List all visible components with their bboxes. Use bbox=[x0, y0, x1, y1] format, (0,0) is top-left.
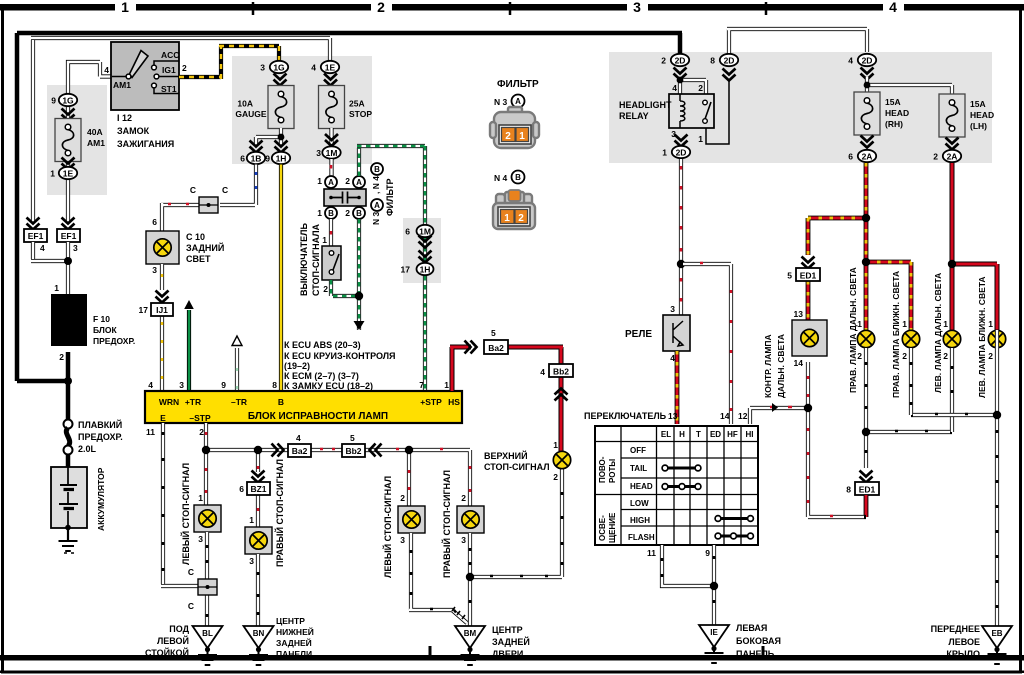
svg-text:2: 2 bbox=[943, 351, 948, 361]
svg-text:ЗАМОК: ЗАМОК bbox=[117, 126, 150, 136]
svg-text:ACC: ACC bbox=[161, 50, 179, 60]
svg-text:4: 4 bbox=[540, 367, 545, 377]
svg-text:1H: 1H bbox=[420, 265, 431, 275]
svg-text:1: 1 bbox=[322, 235, 327, 245]
svg-text:13: 13 bbox=[794, 309, 804, 319]
svg-text:ЛЕВЫЙ СТОП-СИГНАЛ: ЛЕВЫЙ СТОП-СИГНАЛ bbox=[180, 463, 191, 565]
svg-text:A: A bbox=[328, 178, 334, 187]
svg-text:ST1: ST1 bbox=[161, 84, 177, 94]
svg-text:СТОП-СИГНАЛА: СТОП-СИГНАЛА bbox=[311, 223, 321, 296]
svg-text:2: 2 bbox=[553, 472, 558, 482]
svg-text:N 4: N 4 bbox=[494, 173, 508, 183]
svg-text:ЦЕНТР: ЦЕНТР bbox=[276, 616, 305, 626]
svg-text:1H: 1H bbox=[276, 154, 287, 164]
svg-text:AM1: AM1 bbox=[87, 138, 105, 148]
svg-text:1: 1 bbox=[50, 169, 55, 179]
svg-text:5: 5 bbox=[350, 433, 355, 443]
svg-text:2D: 2D bbox=[676, 148, 687, 158]
svg-text:EB: EB bbox=[991, 629, 1002, 638]
svg-text:ПРЕДОХР.: ПРЕДОХР. bbox=[93, 336, 135, 346]
svg-text:2: 2 bbox=[902, 351, 907, 361]
svg-text:E: E bbox=[160, 413, 166, 423]
svg-text:К ЕСМ (2–7) (3–7): К ЕСМ (2–7) (3–7) bbox=[284, 371, 359, 381]
svg-text:НИЖНЕЙ: НИЖНЕЙ bbox=[276, 626, 314, 637]
svg-text:RELAY: RELAY bbox=[619, 111, 649, 121]
svg-text:ПРАВ. ЛАМПА БЛИЖН. СВЕТА: ПРАВ. ЛАМПА БЛИЖН. СВЕТА bbox=[891, 271, 901, 398]
svg-text:2: 2 bbox=[518, 213, 524, 224]
svg-text:OFF: OFF bbox=[630, 446, 646, 455]
svg-text:BN: BN bbox=[253, 629, 265, 638]
svg-text:2D: 2D bbox=[862, 56, 873, 66]
svg-text:6: 6 bbox=[405, 227, 410, 237]
svg-text:4: 4 bbox=[670, 353, 675, 363]
svg-text:, N 4: , N 4 bbox=[371, 176, 381, 194]
svg-text:ПАНЕЛИ: ПАНЕЛИ bbox=[276, 649, 312, 659]
svg-text:2A: 2A bbox=[862, 152, 873, 162]
svg-text:ЛЕВ. ЛАМПА БЛИЖН. СВЕТА: ЛЕВ. ЛАМПА БЛИЖН. СВЕТА bbox=[977, 276, 987, 398]
svg-text:HEADLIGHT: HEADLIGHT bbox=[619, 100, 672, 110]
svg-text:3: 3 bbox=[260, 63, 265, 73]
svg-text:14: 14 bbox=[720, 411, 730, 421]
svg-text:4: 4 bbox=[296, 433, 301, 443]
svg-text:ЩЕНИЕ: ЩЕНИЕ bbox=[608, 512, 617, 543]
svg-text:A: A bbox=[374, 201, 380, 210]
svg-text:3: 3 bbox=[461, 535, 466, 545]
svg-text:2: 2 bbox=[400, 493, 405, 503]
svg-text:3: 3 bbox=[633, 0, 641, 15]
svg-text:ДАЛЬН. СВЕТА: ДАЛЬН. СВЕТА bbox=[776, 334, 786, 398]
svg-text:8: 8 bbox=[846, 485, 851, 495]
svg-text:2.0L: 2.0L bbox=[78, 444, 97, 454]
svg-text:ЛЕВ. ЛАМПА ДАЛЬН. СВЕТА: ЛЕВ. ЛАМПА ДАЛЬН. СВЕТА bbox=[933, 273, 943, 393]
svg-text:ОСВЕ-: ОСВЕ- bbox=[598, 515, 607, 541]
svg-text:1: 1 bbox=[444, 380, 449, 390]
svg-text:5: 5 bbox=[491, 328, 496, 338]
svg-text:(LH): (LH) bbox=[970, 121, 987, 131]
svg-text:ЗАДНИЙ: ЗАДНИЙ bbox=[186, 242, 224, 253]
svg-text:8: 8 bbox=[272, 380, 277, 390]
svg-text:6: 6 bbox=[239, 484, 244, 494]
svg-text:12: 12 bbox=[738, 411, 748, 421]
svg-text:6: 6 bbox=[848, 152, 853, 162]
svg-text:EF1: EF1 bbox=[61, 231, 77, 241]
svg-text:C: C bbox=[222, 185, 228, 195]
svg-text:C: C bbox=[188, 601, 194, 611]
svg-text:2: 2 bbox=[199, 427, 204, 437]
svg-text:ED1: ED1 bbox=[800, 271, 817, 281]
svg-text:10A: 10A bbox=[237, 99, 253, 109]
svg-text:C 10: C 10 bbox=[186, 232, 205, 242]
svg-text:T: T bbox=[696, 430, 701, 439]
svg-text:2A: 2A bbox=[947, 152, 958, 162]
svg-text:2: 2 bbox=[933, 152, 938, 162]
svg-text:БЛОК: БЛОК bbox=[93, 325, 117, 335]
svg-text:B: B bbox=[515, 173, 521, 182]
svg-text:14: 14 bbox=[794, 358, 804, 368]
svg-text:1G: 1G bbox=[62, 96, 74, 106]
svg-text:9: 9 bbox=[705, 548, 710, 558]
svg-text:B: B bbox=[356, 209, 362, 218]
svg-text:2: 2 bbox=[698, 83, 703, 93]
svg-text:4: 4 bbox=[104, 65, 109, 75]
svg-text:3: 3 bbox=[249, 556, 254, 566]
svg-text:Bb2: Bb2 bbox=[553, 367, 569, 377]
svg-text:17: 17 bbox=[139, 305, 149, 315]
svg-text:B: B bbox=[374, 165, 380, 174]
svg-text:1: 1 bbox=[504, 213, 510, 224]
svg-text:IJ1: IJ1 bbox=[156, 305, 168, 315]
svg-text:2D: 2D bbox=[724, 56, 735, 66]
svg-text:ФИЛЬТР: ФИЛЬТР bbox=[385, 178, 395, 216]
svg-text:ПАНЕЛЬ: ПАНЕЛЬ bbox=[736, 649, 775, 659]
svg-text:N 3: N 3 bbox=[494, 97, 508, 107]
svg-text:15A: 15A bbox=[970, 99, 986, 109]
svg-text:АККУМУЛЯТОР: АККУМУЛЯТОР bbox=[96, 467, 106, 531]
svg-text:КОНТР. ЛАМПА: КОНТР. ЛАМПА bbox=[763, 334, 773, 398]
svg-text:3: 3 bbox=[670, 304, 675, 314]
svg-text:1: 1 bbox=[249, 515, 254, 525]
svg-text:EL: EL bbox=[661, 430, 671, 439]
svg-text:HEAD: HEAD bbox=[885, 108, 909, 118]
svg-text:6: 6 bbox=[240, 154, 245, 164]
svg-text:1G: 1G bbox=[273, 63, 285, 73]
svg-text:HIGH: HIGH bbox=[630, 516, 650, 525]
svg-text:HI: HI bbox=[746, 430, 754, 439]
svg-text:ЛЕВОЙ: ЛЕВОЙ bbox=[157, 635, 189, 646]
svg-text:Ba2: Ba2 bbox=[292, 446, 308, 456]
svg-text:9: 9 bbox=[221, 380, 226, 390]
svg-text:ЦЕНТР: ЦЕНТР bbox=[492, 625, 523, 635]
svg-text:13: 13 bbox=[668, 411, 678, 421]
svg-text:ФИЛЬТР: ФИЛЬТР bbox=[497, 79, 539, 90]
svg-text:(19–2): (19–2) bbox=[284, 361, 310, 371]
svg-text:ЛЕВОЕ: ЛЕВОЕ bbox=[948, 637, 980, 647]
svg-text:ПОД: ПОД bbox=[169, 624, 189, 634]
svg-text:1: 1 bbox=[902, 319, 907, 329]
svg-text:3: 3 bbox=[73, 243, 78, 253]
svg-text:11: 11 bbox=[146, 427, 155, 437]
svg-text:ПЛАВКИЙ: ПЛАВКИЙ bbox=[78, 419, 122, 430]
svg-text:WRN: WRN bbox=[159, 397, 179, 407]
svg-text:3: 3 bbox=[316, 148, 321, 158]
svg-text:11: 11 bbox=[647, 548, 656, 558]
svg-text:СТОЙКОЙ: СТОЙКОЙ bbox=[145, 647, 189, 658]
svg-text:5: 5 bbox=[787, 271, 792, 281]
svg-text:4: 4 bbox=[148, 380, 153, 390]
svg-text:РЕЛЕ: РЕЛЕ bbox=[625, 329, 652, 340]
svg-text:ED1: ED1 bbox=[859, 485, 876, 495]
svg-text:ПРАВЫЙ СТОП-СИГНАЛ: ПРАВЫЙ СТОП-СИГНАЛ bbox=[441, 470, 452, 578]
svg-text:STOP: STOP bbox=[349, 109, 372, 119]
svg-text:N 3: N 3 bbox=[371, 212, 381, 226]
svg-text:4: 4 bbox=[672, 83, 677, 93]
svg-text:РОТЫ: РОТЫ bbox=[608, 459, 617, 483]
svg-text:1: 1 bbox=[943, 319, 948, 329]
svg-text:BZ1: BZ1 bbox=[250, 484, 266, 494]
svg-text:2: 2 bbox=[59, 352, 64, 362]
svg-text:2: 2 bbox=[182, 63, 187, 73]
svg-text:B: B bbox=[328, 209, 334, 218]
svg-text:40A: 40A bbox=[87, 127, 103, 137]
svg-text:2: 2 bbox=[461, 493, 466, 503]
svg-text:1M: 1M bbox=[326, 148, 338, 158]
svg-text:ПЕРЕКЛЮЧАТЕЛЬ: ПЕРЕКЛЮЧАТЕЛЬ bbox=[584, 411, 667, 421]
svg-text:ПРЕДОХР.: ПРЕДОХР. bbox=[78, 432, 123, 442]
svg-text:2: 2 bbox=[345, 176, 350, 186]
svg-text:1: 1 bbox=[519, 131, 525, 142]
svg-text:2: 2 bbox=[323, 284, 328, 294]
svg-text:2: 2 bbox=[857, 351, 862, 361]
svg-text:1E: 1E bbox=[63, 169, 74, 179]
svg-text:9: 9 bbox=[265, 154, 270, 164]
svg-text:8: 8 bbox=[710, 56, 715, 66]
svg-text:ПРАВЫЙ СТОП-СИГНАЛ: ПРАВЫЙ СТОП-СИГНАЛ bbox=[274, 459, 285, 567]
svg-text:3: 3 bbox=[198, 534, 203, 544]
svg-text:СТОП-СИГНАЛ: СТОП-СИГНАЛ bbox=[484, 462, 550, 472]
svg-text:ЛЕВАЯ: ЛЕВАЯ bbox=[736, 623, 767, 633]
svg-text:1B: 1B bbox=[251, 154, 262, 164]
svg-text:К ECU ABS (20–3): К ECU ABS (20–3) bbox=[284, 340, 361, 350]
svg-text:F 10: F 10 bbox=[93, 314, 110, 324]
svg-text:1E: 1E bbox=[325, 63, 336, 73]
svg-text:3: 3 bbox=[179, 380, 184, 390]
svg-text:2: 2 bbox=[505, 131, 511, 142]
svg-text:7: 7 bbox=[419, 380, 424, 390]
svg-text:25A: 25A bbox=[349, 99, 365, 109]
svg-text:IG1: IG1 bbox=[162, 65, 176, 75]
svg-text:EF1: EF1 bbox=[28, 231, 44, 241]
svg-text:1: 1 bbox=[317, 176, 322, 186]
svg-text:LOW: LOW bbox=[630, 499, 649, 508]
svg-text:9: 9 bbox=[51, 96, 56, 106]
svg-text:+TR: +TR bbox=[185, 397, 201, 407]
svg-text:2: 2 bbox=[661, 56, 666, 66]
svg-text:1: 1 bbox=[857, 319, 862, 329]
svg-text:HEAD: HEAD bbox=[970, 110, 994, 120]
svg-text:AM1: AM1 bbox=[113, 80, 131, 90]
svg-text:Ba2: Ba2 bbox=[488, 343, 504, 353]
svg-text:ВЫКЛЮЧАТЕЛЬ: ВЫКЛЮЧАТЕЛЬ bbox=[299, 223, 309, 296]
svg-text:1: 1 bbox=[698, 134, 703, 144]
svg-text:A: A bbox=[515, 97, 521, 106]
svg-text:К ЗАМКУ ECU (18–2): К ЗАМКУ ECU (18–2) bbox=[284, 381, 373, 391]
svg-text:15A: 15A bbox=[885, 97, 901, 107]
svg-text:1: 1 bbox=[662, 148, 667, 158]
svg-text:2: 2 bbox=[377, 0, 385, 15]
svg-text:+STP: +STP bbox=[420, 397, 442, 407]
svg-text:БЛОК ИСПРАВНОСТИ ЛАМП: БЛОК ИСПРАВНОСТИ ЛАМП bbox=[248, 411, 388, 422]
svg-text:IE: IE bbox=[710, 628, 718, 637]
svg-text:B: B bbox=[278, 397, 284, 407]
svg-text:HEAD: HEAD bbox=[630, 482, 653, 491]
svg-text:BL: BL bbox=[202, 629, 213, 638]
svg-text:1: 1 bbox=[988, 319, 993, 329]
svg-text:СВЕТ: СВЕТ bbox=[186, 254, 211, 264]
svg-text:ПОВО-: ПОВО- bbox=[598, 456, 607, 483]
svg-text:GAUGE: GAUGE bbox=[235, 109, 267, 119]
svg-text:2: 2 bbox=[988, 351, 993, 361]
svg-text:–TR: –TR bbox=[231, 397, 247, 407]
svg-text:HF: HF bbox=[727, 430, 738, 439]
svg-text:3: 3 bbox=[400, 535, 405, 545]
svg-text:1: 1 bbox=[121, 0, 129, 15]
svg-text:ПРАВ. ЛАМПА ДАЛЬН. СВЕТА: ПРАВ. ЛАМПА ДАЛЬН. СВЕТА bbox=[848, 267, 858, 393]
svg-text:1: 1 bbox=[54, 283, 59, 293]
svg-text:Bb2: Bb2 bbox=[345, 446, 361, 456]
svg-text:4: 4 bbox=[40, 243, 45, 253]
svg-text:ED: ED bbox=[710, 430, 721, 439]
svg-text:4: 4 bbox=[848, 56, 853, 66]
svg-text:2D: 2D bbox=[675, 56, 686, 66]
svg-text:3: 3 bbox=[152, 265, 157, 275]
svg-text:HS: HS bbox=[448, 397, 460, 407]
svg-text:FLASH: FLASH bbox=[628, 533, 655, 542]
svg-text:ВЕРХНИЙ: ВЕРХНИЙ bbox=[484, 450, 528, 461]
svg-text:–STP: –STP bbox=[189, 413, 211, 423]
svg-text:ЗАДНЕЙ: ЗАДНЕЙ bbox=[492, 636, 530, 647]
svg-text:(RH): (RH) bbox=[885, 119, 903, 129]
svg-text:1: 1 bbox=[198, 493, 203, 503]
svg-text:ЗАЖИГАНИЯ: ЗАЖИГАНИЯ bbox=[117, 139, 174, 149]
svg-text:К ECU КРУИЗ-КОНТРОЛЯ: К ECU КРУИЗ-КОНТРОЛЯ bbox=[284, 351, 396, 361]
svg-text:A: A bbox=[356, 178, 362, 187]
svg-text:1M: 1M bbox=[419, 227, 431, 237]
svg-text:4: 4 bbox=[311, 63, 316, 73]
svg-text:I 12: I 12 bbox=[117, 113, 132, 123]
svg-text:КРЫЛО: КРЫЛО bbox=[946, 649, 980, 659]
svg-text:C: C bbox=[190, 185, 196, 195]
svg-text:H: H bbox=[679, 430, 685, 439]
svg-text:ЛЕВЫЙ СТОП-СИГНАЛ: ЛЕВЫЙ СТОП-СИГНАЛ bbox=[382, 476, 393, 578]
svg-text:1: 1 bbox=[553, 440, 558, 450]
svg-text:BM: BM bbox=[464, 629, 477, 638]
svg-text:БОКОВАЯ: БОКОВАЯ bbox=[736, 636, 781, 646]
svg-text:1: 1 bbox=[317, 208, 322, 218]
svg-text:ЗАДНЕЙ: ЗАДНЕЙ bbox=[276, 637, 312, 648]
svg-text:17: 17 bbox=[401, 265, 411, 275]
svg-text:4: 4 bbox=[889, 0, 897, 15]
svg-text:TAIL: TAIL bbox=[630, 464, 647, 473]
svg-text:2: 2 bbox=[345, 208, 350, 218]
svg-text:ДВЕРИ: ДВЕРИ bbox=[492, 649, 523, 659]
svg-text:C: C bbox=[188, 567, 194, 577]
svg-text:ПЕРЕДНЕЕ: ПЕРЕДНЕЕ bbox=[931, 624, 980, 634]
svg-text:6: 6 bbox=[152, 217, 157, 227]
